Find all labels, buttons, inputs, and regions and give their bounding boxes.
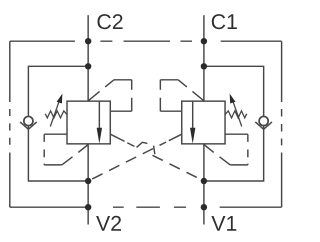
wire right check bypass branch	[204, 66, 264, 181]
enclosure chain border right	[281, 41, 283, 207]
junction dot V2 x check branch	[85, 178, 91, 184]
junction dot V1 x check branch	[201, 178, 207, 184]
valve B2 flow arrow	[97, 101, 102, 144]
valve B1 pilot line loop (dashed)	[160, 80, 204, 111]
check valve CV1 (right)	[255, 116, 272, 129]
valve B2 spring	[45, 111, 67, 118]
valve B1 spring	[225, 111, 247, 118]
pilot cross line D1 (left valve to V1 node, dashed with hop at crossing)	[110, 134, 204, 181]
enclosure chain border bottom	[10, 206, 282, 208]
wire C1 port line	[203, 15, 205, 101]
wire C2 port line	[87, 15, 89, 101]
junction dot V1 x border	[201, 204, 207, 210]
port label V2	[96, 216, 121, 231]
enclosure chain border left	[9, 41, 11, 207]
valve B2 spring drain line (dashed)	[44, 134, 88, 165]
junction dot V2 x border	[85, 204, 91, 210]
junction dot C2 x border	[85, 38, 91, 44]
junction dot C1 x border	[201, 38, 207, 44]
valve B1 flow arrow	[190, 101, 195, 144]
port label V1	[211, 216, 236, 231]
check valve CV2 (left)	[20, 116, 37, 129]
wire V1 port line	[203, 144, 205, 225]
valve B2 pilot line loop (dashed)	[88, 80, 132, 111]
valve B2 adjustment arrow	[50, 94, 62, 127]
junction dot C1 x check branch	[201, 63, 207, 69]
wire left check bypass branch	[28, 66, 88, 181]
pilot cross line D2 (right valve to V2 node, dashed)	[88, 142, 166, 181]
port label C1	[212, 14, 237, 29]
valve B1 spring drain line (dashed)	[204, 134, 248, 165]
junction dot C2 x check branch	[85, 63, 91, 69]
counterbalance valve body B2 (left)	[67, 101, 110, 144]
wire V2 port line	[87, 144, 89, 225]
valve B1 adjustment arrow	[230, 94, 242, 127]
counterbalance valve body B1 (right)	[182, 101, 225, 144]
port label C2	[98, 14, 123, 29]
enclosure chain border top	[10, 40, 282, 42]
